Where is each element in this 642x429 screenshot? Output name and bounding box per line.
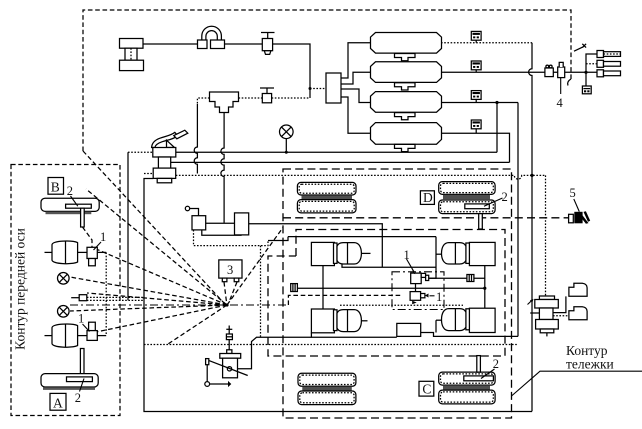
- front brake chamber 1: [45, 241, 78, 264]
- handle link wire: [206, 365, 208, 382]
- rear wheel C right pair: [439, 372, 495, 404]
- vertical wire between left rear chambers: [322, 266, 324, 309]
- chamber port drop top-left: [342, 264, 436, 268]
- front wheel B: [41, 198, 99, 214]
- dotted pair to front riser upper: [87, 296, 144, 298]
- pipe fitting: [71, 295, 87, 301]
- breakaway switch mark: [574, 44, 586, 51]
- dotted pair to front riser lower: [87, 299, 144, 301]
- label B box: [48, 178, 64, 195]
- junction: [309, 87, 312, 90]
- svg-text:3: 3: [227, 263, 233, 277]
- compressor: [120, 39, 144, 71]
- circuit line 1 (upper section to rear): [176, 151, 497, 153]
- wheel B stem: [81, 208, 92, 247]
- brake force regulator: [397, 323, 421, 336]
- circuit line 2 (lower section, dotted): [176, 175, 546, 179]
- pressure sensor 4: [471, 120, 481, 133]
- air reservoir 4: [371, 123, 442, 145]
- handle link rod: [210, 383, 228, 385]
- gauge control line elbow: [288, 295, 402, 305]
- node P junction: [225, 303, 228, 306]
- wire valve to riser: [272, 97, 310, 99]
- long service line to rear: [144, 344, 518, 346]
- rear wheel D right pair: [439, 182, 495, 214]
- wheel C stem: [477, 356, 481, 373]
- wire to coupling house lower: [553, 315, 569, 317]
- drain valve 2: [395, 83, 416, 90]
- svg-text:тележки: тележки: [566, 357, 614, 372]
- bogie circuit dashed box: [283, 169, 512, 418]
- exhaust arrow mark: [528, 300, 533, 305]
- wire junction to protection valve: [310, 88, 326, 90]
- wire lower valve to riser: [97, 335, 106, 337]
- brake valve base: [157, 178, 172, 182]
- wire compressor to regulator: [143, 43, 199, 45]
- svg-text:С: С: [422, 381, 431, 396]
- rear wheel C left pair: [298, 373, 356, 404]
- leader from boundary to node P: [83, 151, 224, 303]
- coupling head house upper: [569, 283, 587, 296]
- exhaust arrow of lower relay: [412, 301, 417, 304]
- four-circuit protection valve: [326, 73, 341, 103]
- wire protection valve to reservoir 1: [341, 43, 371, 78]
- vertical wire between right rear chambers: [484, 266, 486, 309]
- wire regulator to right: [421, 333, 518, 337]
- bogie inner dashed box: [268, 230, 505, 357]
- main solid frame box: [144, 179, 532, 412]
- svg-text:4: 4: [557, 96, 564, 110]
- air reservoir 3: [371, 92, 442, 113]
- wire tee to drop leg: [197, 98, 209, 104]
- wire step to chamber feed: [268, 237, 288, 241]
- leader 2 to wheel cylinder B: [71, 196, 78, 206]
- trailer valve supply riser: [545, 175, 547, 296]
- wire left box to right box: [206, 222, 235, 224]
- wire relay to fitting and riser: [429, 277, 485, 279]
- hand valve stem: [228, 340, 230, 350]
- stub left of brake valve: [128, 151, 153, 153]
- wire stack bottom to service line: [546, 333, 548, 337]
- svg-text:1: 1: [100, 230, 106, 244]
- control lamp: [280, 125, 294, 154]
- handle end circle: [205, 382, 210, 387]
- wire to coupling house upper: [553, 296, 566, 312]
- hand valve handle: [206, 359, 209, 365]
- wheel A stem: [80, 349, 84, 377]
- spring brake chamber rear top-left: [311, 242, 370, 265]
- spring brake chamber rear bottom-left: [311, 309, 367, 333]
- rod end stop: [228, 381, 231, 387]
- pressure sensor 3: [471, 91, 481, 103]
- coupling head 1: [597, 51, 621, 58]
- front axle riser wire: [105, 252, 107, 335]
- hand valve pilot left box: [192, 216, 206, 230]
- riser reservoir 1 to bogie supply: [529, 43, 532, 412]
- supply-circuit dashed boundary: [83, 10, 571, 151]
- svg-text:5: 5: [570, 186, 576, 200]
- tee riser wire down to valve node: [221, 112, 224, 223]
- caption leader polyline: [512, 371, 642, 396]
- front limit valve 1 (lower): [87, 322, 97, 340]
- pressure test connector: [582, 86, 591, 94]
- front wheel A: [41, 374, 98, 390]
- leader 2 to wheel C cylinder: [481, 369, 495, 379]
- shutoff valve: [260, 88, 274, 103]
- drain valve 4: [395, 144, 416, 151]
- svg-text:Контур передней оси: Контур передней оси: [13, 228, 28, 350]
- pressure gauge 3: [219, 260, 242, 282]
- wire valve stack to frame riser: [530, 312, 539, 314]
- brake pedal: [152, 132, 178, 147]
- rear wheel D left pair: [297, 182, 356, 213]
- wire reservoir 3 output: [441, 102, 518, 104]
- feed wire down to relay valve: [429, 237, 436, 279]
- hand valve pivot: [227, 367, 231, 371]
- wire bottom-right chamber down: [435, 320, 437, 332]
- svg-text:В: В: [51, 180, 60, 195]
- accelerator valve 1 lower: [410, 292, 428, 301]
- hand valve output wire: [238, 337, 312, 369]
- label C box: [419, 381, 434, 396]
- svg-text:2: 2: [502, 190, 508, 204]
- front brake chamber 2: [45, 324, 78, 347]
- wire protection valve to reservoir 4: [341, 97, 371, 133]
- brake valve middle: [158, 157, 170, 168]
- hand brake valve stem tick: [226, 328, 232, 330]
- accelerator valve 1 upper: [411, 273, 429, 284]
- wire valve 1 to riser: [97, 251, 106, 253]
- fan leader to front valve 1 bottom: [96, 305, 227, 332]
- fan leader to brake chamber valve upper: [86, 189, 227, 305]
- wire safety valve to riser: [273, 44, 310, 98]
- hand valve top stem: [228, 326, 230, 335]
- svg-text:1: 1: [78, 312, 84, 326]
- brake valve upper section: [153, 148, 176, 158]
- leader from gauge 3 foot right: [229, 282, 237, 302]
- hand valve supply dotted drop: [260, 246, 262, 338]
- drain valve 1: [395, 54, 416, 61]
- control lamp 1: [58, 273, 70, 285]
- wire regulator left supply: [311, 333, 396, 338]
- rear fitting left hatch square: [291, 284, 298, 292]
- control line solid to junction: [297, 287, 484, 289]
- connector 5 plug: [569, 211, 591, 223]
- service dotted line lower: [340, 304, 463, 306]
- pressure sensor 2: [471, 61, 481, 72]
- hand valve top fitting: [226, 334, 232, 340]
- svg-text:D: D: [423, 190, 433, 205]
- junction on right riser: [483, 287, 486, 290]
- fan leader to front valve 1 top: [96, 249, 227, 305]
- coupling head house lower: [569, 307, 587, 320]
- wheel D stem: [479, 214, 483, 229]
- svg-text:1: 1: [436, 290, 442, 304]
- dash-dot line through node P: [70, 304, 288, 306]
- wire up to coupling head 1: [586, 54, 597, 72]
- leader for label 4: [560, 78, 562, 94]
- boundary hook bottom right: [568, 79, 571, 86]
- line filter: [545, 65, 553, 77]
- brake valve lower section: [153, 168, 176, 178]
- wire tee to shutoff valve: [239, 97, 263, 99]
- rear fitting hatch square: [467, 275, 474, 282]
- wire protection valve to reservoir 2: [341, 72, 371, 84]
- wire right box to rear riser: [249, 224, 383, 267]
- safety valve: [261, 33, 275, 55]
- wire down to pressure head: [585, 72, 587, 85]
- drop leg wire to brake valve lower port: [194, 104, 197, 173]
- front-axle circuit dashed box: [11, 165, 120, 416]
- arrow leader to upper relay: [407, 259, 415, 272]
- wire chamber 2 to valve: [78, 335, 87, 337]
- spring brake chamber rear top-right (mirrored): [441, 242, 495, 265]
- wire junction down to brake circuit: [496, 103, 498, 153]
- leader 2 to wheel cylinder A: [80, 379, 85, 392]
- air reservoir 1: [371, 33, 442, 54]
- pressure sensor 1: [471, 31, 481, 42]
- hand brake valve flange: [227, 350, 232, 354]
- leader 1 to lower valve: [83, 324, 90, 332]
- front circuit drop wire: [127, 152, 129, 300]
- trailer control line to connector 5: [283, 217, 568, 219]
- svg-text:2: 2: [75, 391, 81, 405]
- wire chamber 1 to valve 1: [78, 251, 87, 253]
- spring brake chamber rear bottom-right: [441, 308, 495, 332]
- leader 5 to connector: [574, 199, 580, 212]
- hand valve lever: [208, 360, 248, 375]
- label D box: [420, 191, 434, 205]
- junction reservoir 3 line: [495, 101, 498, 104]
- shut-off cock 4: [558, 62, 565, 77]
- dash-dot box around relay valves: [392, 272, 444, 310]
- pedal fulcrum: [167, 140, 175, 147]
- dotted wire lower loop: [194, 230, 269, 246]
- link between relay valves: [415, 284, 417, 292]
- label A box: [50, 393, 66, 410]
- stub top-right chamber: [436, 253, 442, 255]
- coupling head 2: [597, 60, 621, 67]
- wire reservoir 2 output: [441, 71, 545, 73]
- wire reservoir 4 output: [441, 133, 510, 162]
- fan leader to inner bogie box corner: [227, 228, 283, 306]
- stub left of lower section: [144, 173, 153, 175]
- vent port circle: [185, 206, 189, 210]
- vent stem of left box: [190, 209, 199, 216]
- riser reservoir 3 down right side: [517, 103, 519, 337]
- pedal pad: [174, 130, 188, 139]
- front limit valve 1 (upper): [87, 247, 97, 265]
- stub bottom-right chamber: [436, 319, 442, 321]
- air reservoir 2: [371, 62, 442, 83]
- junction trailer line: [584, 71, 587, 74]
- svg-text:А: А: [53, 395, 63, 410]
- fan leader to fitting: [87, 293, 227, 305]
- wire reservoir 1 output: [441, 42, 532, 44]
- leader 2 to wheel D cylinder: [484, 198, 503, 206]
- leader dash to label 1: [430, 295, 435, 297]
- wire left box bottom loop: [202, 230, 241, 235]
- leader 1 to valve: [94, 242, 102, 250]
- fan leader to lamp 2: [70, 305, 227, 311]
- coupling head 3: [597, 70, 621, 77]
- drain valve 3: [395, 113, 416, 120]
- supply wire into bogie cluster: [288, 236, 436, 238]
- single protection valve right box: [235, 213, 249, 235]
- trailer service line: [545, 71, 597, 73]
- hand brake valve body: [223, 358, 238, 378]
- svg-text:2: 2: [67, 184, 73, 198]
- pressure regulator arch: [198, 26, 225, 48]
- condensate tee fitting: [210, 92, 239, 113]
- wire to coupling head 2: [586, 63, 597, 65]
- hand brake valve cap: [220, 354, 241, 359]
- trailer protection valve stack: [535, 296, 559, 333]
- wire protection valve to reservoir 3: [341, 89, 371, 103]
- fan leader lower left: [168, 305, 227, 344]
- control lamp 2: [58, 306, 70, 318]
- fan leader to lamp 1: [70, 277, 227, 305]
- wire regulator to safety valve: [225, 43, 263, 45]
- leader from gauge 3 foot left: [224, 282, 227, 302]
